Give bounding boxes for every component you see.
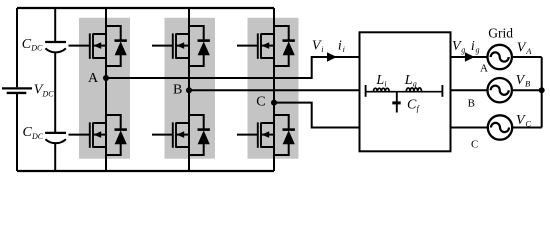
svg-text:i: i	[321, 45, 323, 54]
svg-text:A: A	[525, 46, 532, 56]
svg-text:L: L	[375, 73, 384, 88]
svg-text:g: g	[476, 46, 480, 55]
svg-text:g: g	[413, 79, 417, 88]
svg-text:Grid: Grid	[488, 26, 513, 41]
svg-text:i: i	[338, 39, 342, 54]
svg-text:C: C	[22, 37, 32, 52]
svg-text:B: B	[468, 97, 475, 109]
svg-text:B: B	[173, 82, 182, 97]
svg-text:A: A	[88, 71, 99, 86]
svg-text:C: C	[23, 125, 33, 140]
svg-text:B: B	[525, 79, 530, 89]
svg-text:DC: DC	[30, 43, 43, 52]
svg-text:C: C	[256, 94, 265, 109]
svg-text:g: g	[461, 46, 465, 55]
svg-text:i: i	[343, 45, 345, 54]
svg-text:i: i	[384, 79, 386, 88]
svg-text:C: C	[407, 98, 417, 113]
svg-text:A: A	[480, 62, 488, 74]
svg-text:i: i	[471, 39, 475, 54]
svg-text:DC: DC	[42, 89, 55, 98]
svg-text:C: C	[471, 139, 478, 151]
svg-text:DC: DC	[31, 132, 44, 141]
svg-text:C: C	[525, 118, 531, 128]
svg-text:L: L	[404, 73, 413, 88]
